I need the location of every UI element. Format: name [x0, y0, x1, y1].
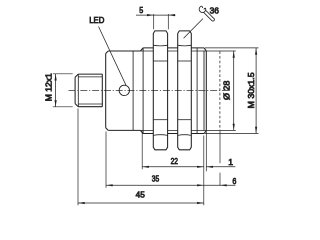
dim dia28 arrow bottom	[233, 124, 235, 131]
thread crest bottom segments	[143, 133, 204, 135]
dim M12 ext bottom	[53, 106, 73, 108]
body left face	[105, 54, 107, 128]
svg-text:35: 35	[152, 173, 160, 183]
thread root bottom segments	[140, 129, 206, 131]
LED circle	[119, 85, 129, 95]
washer face	[205, 51, 207, 131]
dim dia28 arrow top	[233, 51, 235, 58]
dim 5 line	[136, 14, 176, 16]
nut 1 chamfer arc bottom	[153, 134, 167, 137]
dim 6 line	[204, 184, 236, 186]
bottom ext line x204	[203, 136, 205, 206]
dim 35 line	[106, 184, 204, 186]
connector left face	[74, 77, 76, 103]
body ring line	[132, 51, 134, 130]
centerline	[69, 89, 231, 91]
bottom ext line x206	[205, 131, 207, 172]
bottom ext line x142	[141, 132, 143, 170]
dim 5 arrow left	[147, 14, 154, 16]
svg-text:M 30x1.5: M 30x1.5	[246, 72, 256, 108]
nut 1 facet line upper	[153, 60, 167, 62]
svg-text:36: 36	[210, 6, 219, 16]
dim 45 line	[78, 202, 204, 204]
bottom ext line x220 upper	[219, 131, 221, 164]
svg-text:1: 1	[228, 157, 233, 167]
thread runout line	[196, 48, 198, 134]
nut 2 chamfer arc bottom	[178, 134, 192, 137]
svg-text:6: 6	[232, 176, 236, 186]
M30 ext line top	[205, 47, 259, 49]
dim M12 arrow bottom	[55, 100, 57, 107]
dim M12 line	[55, 74, 57, 107]
connector M12 thread crest top	[78, 73, 102, 75]
nut 2 chamfer arc top	[178, 44, 192, 47]
dim M30 line	[255, 48, 257, 134]
nose bottom edge + dia28 ext bottom	[206, 129, 236, 131]
dim M30 arrow top	[255, 48, 257, 55]
dim 22 line	[142, 166, 204, 168]
nut 2 outline	[178, 31, 192, 150]
dim M12 ext top	[53, 73, 73, 75]
bottom ext line x106	[105, 132, 107, 188]
connector left chamfer bottom	[75, 104, 78, 107]
connector right face	[101, 74, 103, 107]
barrel start chamfer bottom	[140, 130, 143, 133]
dim 22 arrow left	[142, 166, 149, 168]
svg-text:LED: LED	[89, 15, 104, 25]
dim 5 ext right	[167, 14, 169, 29]
body left chamfer top	[106, 51, 109, 54]
dim 6 arrow	[220, 184, 227, 186]
svg-text:M 12x1: M 12x1	[44, 73, 54, 101]
svg-text:45: 45	[136, 189, 145, 199]
dim M12 arrow top	[55, 74, 57, 81]
connector thread root bottom	[78, 103, 102, 105]
dim 1 arrow	[206, 166, 213, 168]
dim 1 line	[206, 166, 235, 168]
connector thread root top	[78, 76, 102, 78]
svg-text:Ø 28: Ø 28	[222, 80, 232, 100]
svg-text:22: 22	[171, 156, 179, 166]
thread end face	[203, 51, 205, 131]
wrench leader	[184, 19, 203, 39]
connector M12 thread crest bottom	[78, 106, 102, 108]
thread end chamfer bottom	[204, 131, 206, 134]
LED leader	[99, 27, 127, 86]
M30 ext line bottom	[205, 133, 259, 135]
dim 35 arrow right	[197, 184, 204, 186]
nut 1 chamfer arc top	[153, 44, 167, 47]
dim M30 arrow bottom	[255, 127, 257, 134]
nose top edge + dia28 ext top	[206, 50, 236, 52]
thread crest top segments	[143, 47, 204, 49]
bottom ext line x78	[77, 109, 79, 206]
nut 2 facet line upper	[178, 60, 192, 62]
body top edge	[108, 50, 140, 52]
dim dia28 line	[233, 51, 235, 130]
dim 5 arrow right	[168, 14, 175, 16]
dim 35 arrow left	[106, 184, 113, 186]
thread root top segments	[140, 50, 206, 52]
body left chamfer bottom	[106, 128, 109, 131]
dim 5 ext left	[153, 14, 155, 29]
nut 2 facet line lower	[178, 119, 192, 121]
nut 1 outline	[153, 31, 167, 150]
body bottom edge	[108, 129, 140, 131]
svg-text:5: 5	[139, 5, 143, 15]
dim 22 arrow right	[197, 166, 204, 168]
wrench icon	[199, 6, 214, 21]
thread start face	[142, 48, 144, 134]
barrel start chamfer top	[140, 48, 143, 51]
nut 1 facet line lower	[153, 119, 167, 121]
dim 45 arrow right	[197, 202, 204, 204]
dim 45 arrow left	[78, 202, 85, 204]
connector chamfer line	[77, 74, 79, 107]
sensing face dashed line	[219, 51, 221, 130]
bottom ext line x220 lower	[219, 173, 221, 186]
thread end chamfer top	[204, 48, 206, 51]
connector left chamfer top	[75, 74, 78, 77]
